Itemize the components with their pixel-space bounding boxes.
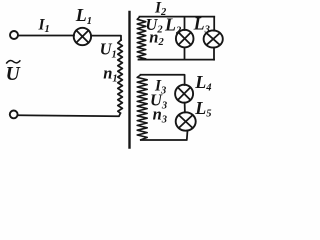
lamp L3 xyxy=(204,30,223,47)
wire: L3 branch stub bottom xyxy=(213,48,215,60)
label U2 xyxy=(145,15,163,36)
lamp L2 xyxy=(176,30,194,48)
label L4 xyxy=(194,72,211,94)
secondary winding n3 xyxy=(137,75,147,140)
wire: L3 branch stub top xyxy=(213,17,215,31)
terminal (bottom-left input) xyxy=(10,111,18,119)
node U (AC source, letter) xyxy=(6,64,21,85)
label n1 xyxy=(103,64,117,85)
label L2 xyxy=(164,15,182,37)
label L5 xyxy=(194,98,211,120)
label I2 xyxy=(154,0,167,18)
lamp L5 xyxy=(176,112,196,130)
label L3 xyxy=(193,14,210,36)
wire: L5 to n3 bottom rail xyxy=(141,130,188,140)
svg-text:U: U xyxy=(6,64,21,85)
wire: n2 bottom rail xyxy=(139,59,215,61)
label I1 xyxy=(38,16,50,35)
label n2 xyxy=(149,27,164,48)
svg-text:L1: L1 xyxy=(75,5,92,27)
svg-text:n1: n1 xyxy=(103,64,117,85)
wire: stub between L4 and L5 xyxy=(184,103,186,113)
svg-text:L2: L2 xyxy=(164,15,182,37)
svg-text:U1: U1 xyxy=(100,40,117,61)
wire: L2 branch stub top xyxy=(184,17,186,30)
wire bottom: primary winding to terminal xyxy=(18,113,121,116)
wire top: terminal to lamp L1 xyxy=(18,35,74,37)
transformer core xyxy=(128,12,130,148)
label I3 xyxy=(154,78,166,97)
svg-text:I1: I1 xyxy=(38,16,50,35)
wire: lamp L1 to primary winding xyxy=(91,36,121,40)
label L1 xyxy=(75,5,92,27)
terminal (top-left input) xyxy=(10,31,18,39)
primary winding n1 xyxy=(118,40,123,113)
label n3 xyxy=(153,105,167,126)
label U3 xyxy=(150,91,167,112)
label U1 xyxy=(100,40,117,61)
wire: n3 top rail xyxy=(141,75,185,85)
secondary winding n2 xyxy=(137,17,146,59)
svg-text:L4: L4 xyxy=(194,72,211,94)
lamp L4 xyxy=(175,85,193,103)
node U (AC source, tilde) xyxy=(6,60,20,63)
wire: n2 top rail xyxy=(140,16,215,18)
wire: L2 branch stub bottom xyxy=(184,47,186,59)
svg-text:L5: L5 xyxy=(194,98,211,120)
lamp L1 xyxy=(74,28,91,45)
